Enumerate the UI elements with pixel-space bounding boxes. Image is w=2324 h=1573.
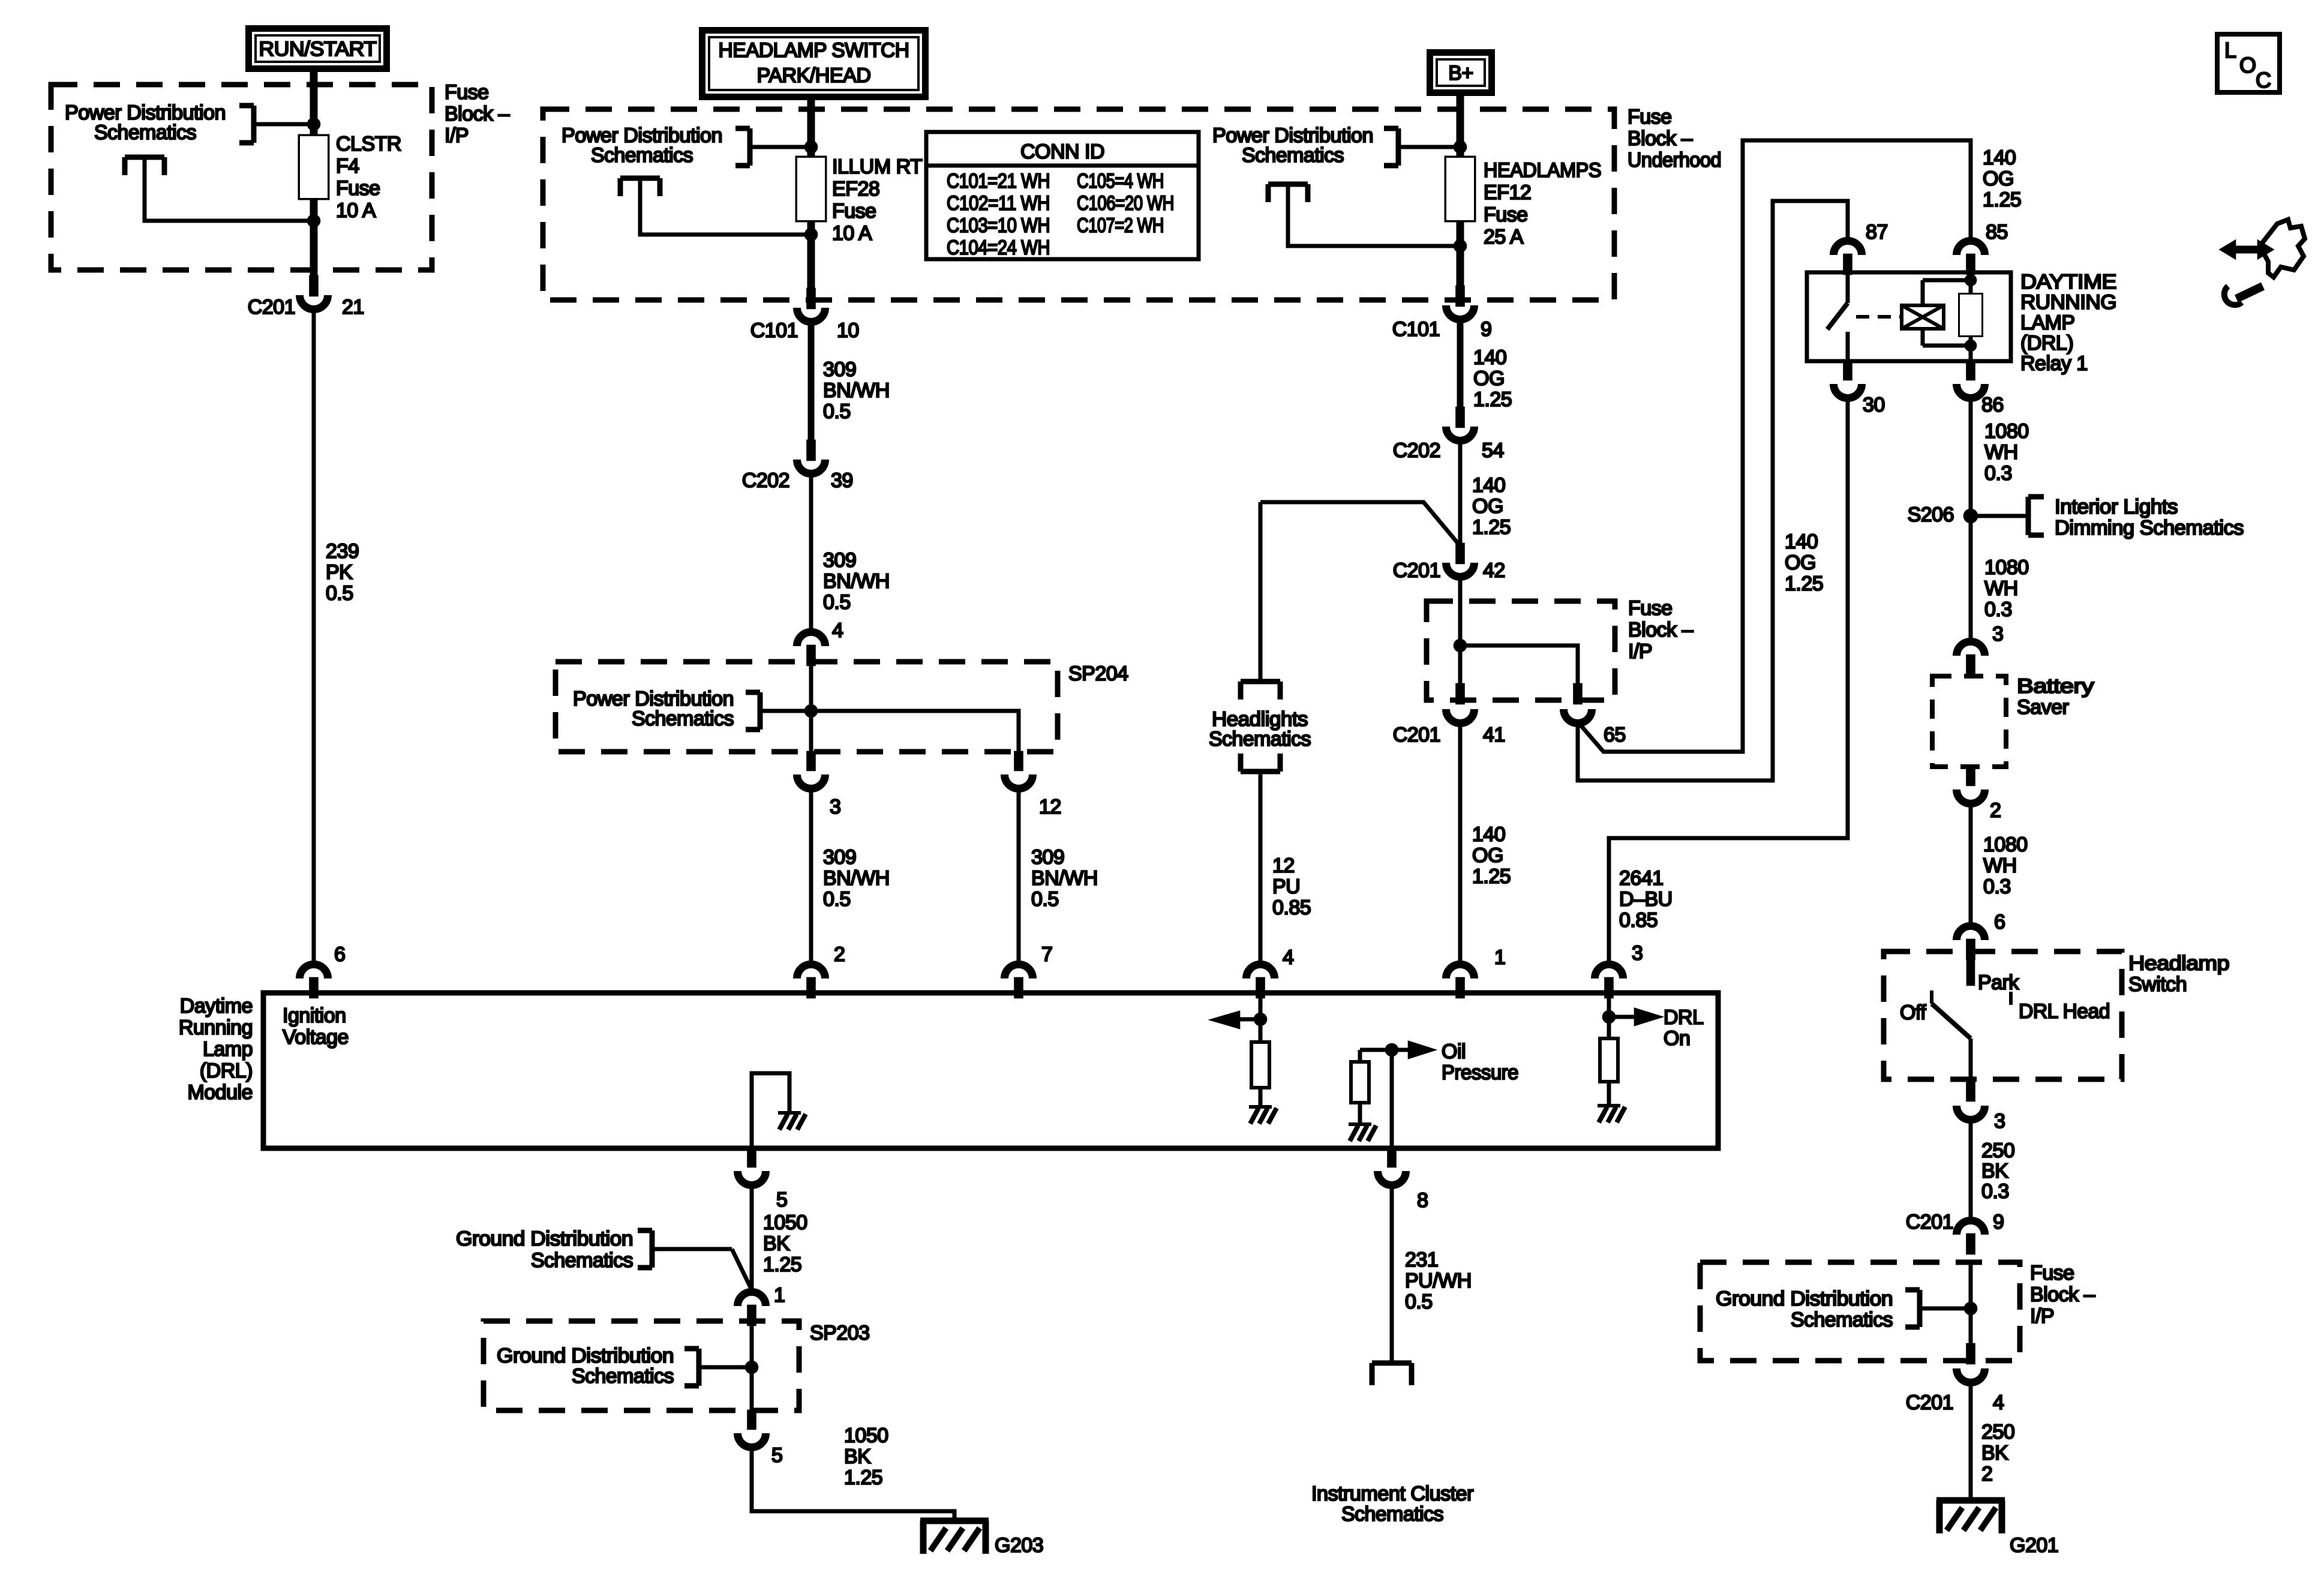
svg-text:239: 239 <box>326 540 359 563</box>
svg-text:Block –: Block – <box>1628 619 1694 641</box>
svg-text:DRL: DRL <box>1664 1006 1704 1029</box>
svg-text:Park: Park <box>1978 971 2019 994</box>
svg-text:309: 309 <box>823 846 856 869</box>
svg-text:C202: C202 <box>742 469 789 492</box>
svg-text:Relay 1: Relay 1 <box>2020 352 2088 375</box>
svg-text:3: 3 <box>1992 623 2003 646</box>
svg-text:I/P: I/P <box>445 124 469 147</box>
svg-text:RUN/START: RUN/START <box>259 38 377 61</box>
svg-text:Module: Module <box>187 1081 253 1104</box>
svg-text:4: 4 <box>1283 946 1293 969</box>
svg-text:DAYTIME: DAYTIME <box>2020 271 2116 293</box>
svg-text:Daytime: Daytime <box>180 995 253 1017</box>
svg-text:10: 10 <box>837 319 859 342</box>
svg-text:Schematics: Schematics <box>1209 728 1311 751</box>
svg-text:C103=10 WH: C103=10 WH <box>947 214 1050 237</box>
svg-text:Schematics: Schematics <box>572 1365 674 1388</box>
svg-text:6: 6 <box>334 943 345 966</box>
svg-text:I/P: I/P <box>1628 640 1652 663</box>
svg-text:2: 2 <box>834 943 845 966</box>
svg-text:O: O <box>2239 53 2256 77</box>
svg-text:25 A: 25 A <box>1484 226 1524 248</box>
svg-text:DRL Head: DRL Head <box>2019 1000 2110 1023</box>
svg-text:CONN ID: CONN ID <box>1020 140 1104 163</box>
svg-text:1.25: 1.25 <box>1785 572 1823 595</box>
svg-text:4: 4 <box>1993 1391 2004 1414</box>
svg-text:C201: C201 <box>248 296 295 319</box>
svg-text:1.25: 1.25 <box>1983 188 2021 211</box>
svg-text:140: 140 <box>1983 146 2016 169</box>
svg-text:OG: OG <box>1785 551 1816 574</box>
svg-text:Fuse: Fuse <box>1484 203 1528 226</box>
svg-text:3: 3 <box>1994 1110 2005 1133</box>
svg-text:B+: B+ <box>1448 62 1473 85</box>
svg-text:WH: WH <box>1984 441 2018 464</box>
svg-text:1: 1 <box>1494 946 1505 969</box>
svg-text:C: C <box>2256 68 2271 92</box>
svg-text:140: 140 <box>1472 823 1505 846</box>
svg-text:BK: BK <box>1981 1160 2008 1182</box>
svg-text:ILLUM RT: ILLUM RT <box>832 155 922 178</box>
svg-text:Running: Running <box>179 1016 253 1039</box>
svg-text:EF12: EF12 <box>1484 181 1531 204</box>
svg-text:30: 30 <box>1863 394 1885 416</box>
svg-text:G201: G201 <box>2010 1534 2058 1557</box>
svg-text:0.3: 0.3 <box>1981 1180 2009 1203</box>
svg-text:(DRL): (DRL) <box>200 1059 253 1082</box>
svg-text:86: 86 <box>1981 394 2004 416</box>
svg-text:Switch: Switch <box>2128 973 2187 996</box>
svg-text:LAMP: LAMP <box>2020 311 2075 334</box>
svg-text:9: 9 <box>1481 318 1491 341</box>
svg-text:0.5: 0.5 <box>1405 1290 1433 1313</box>
svg-text:309: 309 <box>823 358 856 381</box>
svg-text:Schematics: Schematics <box>1791 1308 1893 1331</box>
svg-text:1050: 1050 <box>763 1211 807 1234</box>
svg-text:309: 309 <box>823 549 856 572</box>
svg-text:65: 65 <box>1604 724 1626 746</box>
svg-text:2641: 2641 <box>1619 867 1664 890</box>
svg-text:Fuse: Fuse <box>1628 106 1672 128</box>
svg-text:Fuse: Fuse <box>832 200 876 223</box>
svg-text:C201: C201 <box>1906 1211 1953 1233</box>
svg-text:1.25: 1.25 <box>1472 865 1511 888</box>
svg-text:3: 3 <box>830 795 840 818</box>
svg-text:Fuse: Fuse <box>445 81 489 104</box>
svg-text:C107=2 WH: C107=2 WH <box>1077 214 1164 237</box>
svg-text:C106=20 WH: C106=20 WH <box>1077 192 1174 215</box>
svg-text:0.85: 0.85 <box>1272 896 1311 919</box>
svg-text:C201: C201 <box>1393 724 1440 746</box>
svg-text:Interior Lights: Interior Lights <box>2055 496 2178 518</box>
svg-text:Schematics: Schematics <box>531 1249 633 1272</box>
svg-text:Headlamp: Headlamp <box>2128 952 2229 975</box>
svg-text:G203: G203 <box>995 1534 1043 1557</box>
svg-text:F4: F4 <box>336 155 359 178</box>
svg-text:2: 2 <box>1981 1463 1992 1485</box>
svg-text:I/P: I/P <box>2030 1305 2054 1328</box>
svg-text:0.5: 0.5 <box>823 400 851 423</box>
svg-text:Dimming Schematics: Dimming Schematics <box>2055 517 2244 539</box>
svg-text:Ground Distribution: Ground Distribution <box>456 1227 633 1250</box>
svg-text:C201: C201 <box>1393 559 1440 582</box>
svg-text:SP204: SP204 <box>1068 662 1128 685</box>
svg-text:0.3: 0.3 <box>1984 598 2012 621</box>
svg-text:1.25: 1.25 <box>1473 388 1512 411</box>
svg-text:8: 8 <box>1417 1189 1428 1212</box>
svg-text:9: 9 <box>1993 1211 2004 1233</box>
svg-text:Saver: Saver <box>2017 696 2068 719</box>
svg-text:Schematics: Schematics <box>1242 144 1344 167</box>
svg-text:21: 21 <box>342 296 364 319</box>
svg-text:D–BU: D–BU <box>1619 888 1673 911</box>
svg-text:4: 4 <box>832 619 843 642</box>
svg-text:CLSTR: CLSTR <box>336 133 401 155</box>
svg-text:Fuse: Fuse <box>2030 1262 2074 1284</box>
svg-text:0.5: 0.5 <box>823 591 851 614</box>
svg-text:250: 250 <box>1981 1139 2014 1162</box>
svg-text:Pressure: Pressure <box>1442 1061 1518 1084</box>
svg-text:BK: BK <box>1981 1442 2008 1464</box>
svg-text:Off: Off <box>1900 1001 1926 1024</box>
svg-text:C105=4 WH: C105=4 WH <box>1077 170 1164 193</box>
svg-text:EF28: EF28 <box>832 178 879 200</box>
svg-text:SP203: SP203 <box>810 1322 870 1344</box>
svg-text:0.5: 0.5 <box>1031 888 1059 911</box>
svg-text:Block –: Block – <box>445 103 510 125</box>
svg-text:(DRL): (DRL) <box>2020 332 2073 355</box>
svg-text:Oil: Oil <box>1442 1040 1466 1063</box>
svg-text:BN/WH: BN/WH <box>1031 867 1098 890</box>
svg-text:0.85: 0.85 <box>1619 909 1658 932</box>
svg-text:Battery: Battery <box>2017 675 2094 698</box>
svg-text:87: 87 <box>1866 221 1888 244</box>
svg-text:Block –: Block – <box>1628 127 1693 150</box>
svg-text:12: 12 <box>1039 795 1061 818</box>
svg-text:1: 1 <box>774 1284 785 1307</box>
svg-text:Voltage: Voltage <box>283 1026 349 1049</box>
svg-text:140: 140 <box>1472 474 1505 497</box>
svg-text:6: 6 <box>1994 911 2005 933</box>
svg-text:1080: 1080 <box>1983 833 2028 856</box>
svg-text:WH: WH <box>1983 854 2017 877</box>
svg-text:Ignition: Ignition <box>283 1004 346 1027</box>
svg-text:3: 3 <box>1632 942 1643 965</box>
svg-text:C101: C101 <box>1392 318 1440 341</box>
svg-text:140: 140 <box>1785 530 1818 553</box>
svg-text:0.3: 0.3 <box>1984 462 2012 485</box>
svg-text:C202: C202 <box>1393 439 1440 462</box>
svg-text:309: 309 <box>1031 846 1064 869</box>
svg-text:PU/WH: PU/WH <box>1405 1269 1472 1292</box>
svg-text:L: L <box>2224 38 2236 62</box>
svg-text:C201: C201 <box>1906 1391 1953 1414</box>
svg-text:C101: C101 <box>750 319 798 342</box>
svg-text:Schematics: Schematics <box>591 144 693 167</box>
svg-text:10 A: 10 A <box>832 222 872 245</box>
svg-text:Lamp: Lamp <box>203 1038 253 1061</box>
svg-text:Fuse: Fuse <box>336 177 380 200</box>
svg-text:1.25: 1.25 <box>1472 516 1511 539</box>
svg-text:250: 250 <box>1981 1421 2014 1443</box>
svg-text:41: 41 <box>1483 724 1505 746</box>
svg-text:Instrument Cluster: Instrument Cluster <box>1311 1482 1473 1505</box>
svg-text:S206: S206 <box>1908 503 1954 526</box>
svg-text:OG: OG <box>1472 844 1503 867</box>
svg-text:BN/WH: BN/WH <box>823 570 890 593</box>
svg-text:Block –: Block – <box>2030 1283 2095 1306</box>
svg-text:0.3: 0.3 <box>1983 875 2011 898</box>
svg-text:1.25: 1.25 <box>763 1253 801 1276</box>
svg-text:0.5: 0.5 <box>823 888 851 911</box>
svg-text:WH: WH <box>1984 577 2018 600</box>
svg-text:Schematics: Schematics <box>632 707 734 730</box>
svg-text:BK: BK <box>763 1232 790 1255</box>
svg-text:PK: PK <box>326 561 353 584</box>
svg-text:RUNNING: RUNNING <box>2020 291 2116 314</box>
svg-text:2: 2 <box>1990 799 2001 822</box>
svg-text:HEADLAMPS: HEADLAMPS <box>1484 159 1601 182</box>
svg-text:85: 85 <box>1986 221 2008 244</box>
svg-text:Ground Distribution: Ground Distribution <box>497 1344 674 1367</box>
svg-text:OG: OG <box>1473 367 1505 390</box>
svg-text:42: 42 <box>1483 559 1505 582</box>
svg-text:C101=21 WH: C101=21 WH <box>947 170 1050 193</box>
svg-text:Ground Distribution: Ground Distribution <box>1716 1287 1893 1310</box>
svg-text:1.25: 1.25 <box>844 1466 882 1489</box>
svg-text:54: 54 <box>1482 439 1504 462</box>
svg-text:Schematics: Schematics <box>1341 1503 1443 1526</box>
svg-text:10 A: 10 A <box>336 199 376 222</box>
svg-text:231: 231 <box>1405 1248 1438 1271</box>
svg-text:C102=11 WH: C102=11 WH <box>947 192 1050 215</box>
svg-text:1080: 1080 <box>1984 420 2029 443</box>
svg-text:OG: OG <box>1983 167 2014 190</box>
svg-text:Fuse: Fuse <box>1628 597 1673 620</box>
svg-text:On: On <box>1664 1027 1690 1050</box>
svg-text:5: 5 <box>771 1444 782 1467</box>
svg-text:140: 140 <box>1473 346 1506 369</box>
svg-text:OG: OG <box>1472 495 1503 518</box>
svg-text:Schematics: Schematics <box>94 121 196 144</box>
svg-text:39: 39 <box>831 469 853 492</box>
svg-text:PU: PU <box>1272 875 1300 898</box>
svg-text:12: 12 <box>1272 854 1295 877</box>
svg-text:Underhood: Underhood <box>1628 149 1721 172</box>
svg-text:0.5: 0.5 <box>326 582 353 605</box>
svg-text:1080: 1080 <box>1984 556 2029 579</box>
svg-text:HEADLAMP SWITCH: HEADLAMP SWITCH <box>719 39 909 62</box>
svg-text:5: 5 <box>776 1188 787 1211</box>
svg-text:BN/WH: BN/WH <box>823 379 890 402</box>
svg-text:7: 7 <box>1041 943 1052 966</box>
svg-text:BK: BK <box>844 1445 871 1468</box>
svg-text:PARK/HEAD: PARK/HEAD <box>757 64 871 87</box>
svg-text:1050: 1050 <box>844 1424 888 1447</box>
svg-text:BN/WH: BN/WH <box>823 867 890 890</box>
svg-text:C104=24 WH: C104=24 WH <box>947 236 1050 259</box>
